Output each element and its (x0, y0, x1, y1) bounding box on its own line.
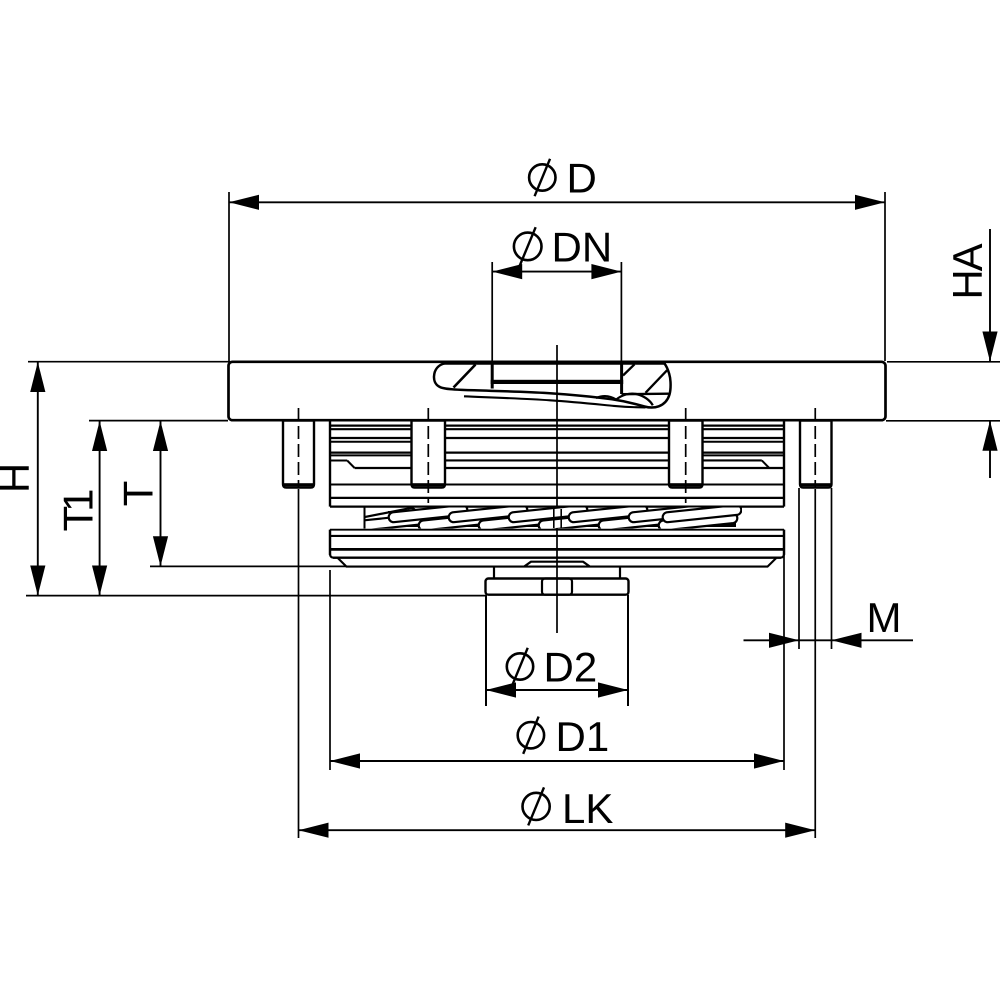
svg-text:HA: HA (944, 243, 991, 299)
svg-text:M: M (867, 594, 902, 641)
svg-text:H: H (0, 463, 38, 493)
svg-text:T: T (115, 481, 162, 507)
svg-text:D1: D1 (556, 713, 610, 760)
svg-text:DN: DN (552, 224, 613, 271)
svg-text:LK: LK (562, 785, 613, 832)
svg-text:D2: D2 (544, 643, 598, 690)
svg-text:T1: T1 (55, 490, 102, 532)
svg-text:D: D (567, 155, 597, 202)
